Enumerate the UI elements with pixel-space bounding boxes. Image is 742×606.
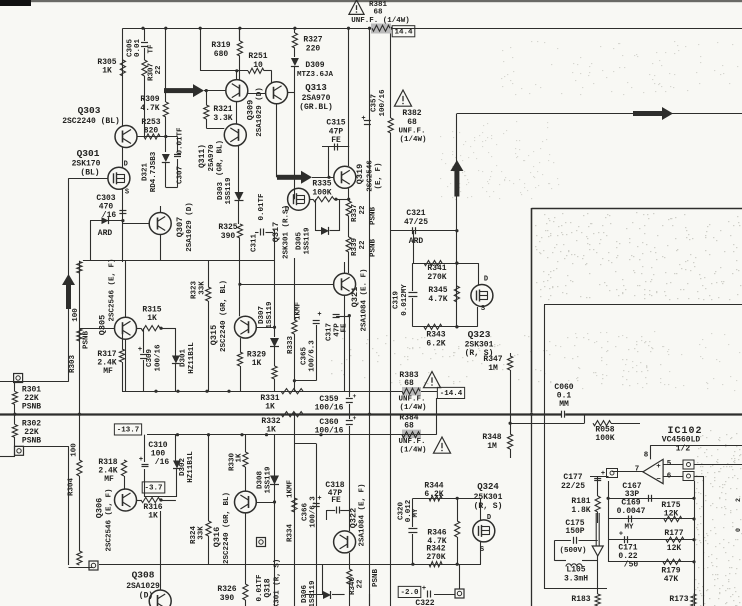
- svg-text:Q323: Q323: [468, 329, 491, 340]
- svg-text:FE: FE: [331, 136, 341, 145]
- svg-text:8: 8: [644, 452, 649, 460]
- svg-text:1K: 1K: [265, 403, 275, 412]
- svg-text:PSNB: PSNB: [370, 207, 378, 226]
- svg-text:C319: C319: [393, 291, 401, 310]
- svg-text:6: 6: [667, 473, 672, 481]
- svg-text:0.012MY: 0.012MY: [401, 284, 409, 316]
- svg-text:33K: 33K: [199, 281, 207, 295]
- svg-text:(1/4W): (1/4W): [399, 447, 426, 455]
- svg-text:R327: R327: [303, 36, 322, 45]
- svg-text:2SA1084 (E. F): 2SA1084 (E. F): [361, 268, 369, 331]
- svg-text:S: S: [480, 546, 484, 554]
- svg-text:C321: C321: [406, 209, 425, 218]
- svg-text:UNF.F.: UNF.F.: [398, 438, 425, 446]
- svg-text:/16: /16: [155, 458, 170, 467]
- svg-text:6.2K: 6.2K: [426, 340, 445, 349]
- svg-text:MY: MY: [624, 524, 634, 532]
- svg-text:2SC2546 (E, F): 2SC2546 (E, F): [106, 488, 114, 551]
- svg-text:MF: MF: [104, 475, 114, 484]
- svg-text:MF: MF: [103, 367, 113, 376]
- svg-text:Q301: Q301: [77, 148, 100, 159]
- svg-text:680: 680: [214, 50, 229, 59]
- svg-text:C317: C317: [326, 323, 334, 341]
- svg-text:(1/4W): (1/4W): [399, 136, 426, 144]
- svg-text:100/16: 100/16: [315, 427, 344, 436]
- svg-text:1M: 1M: [487, 442, 497, 451]
- svg-text:68: 68: [404, 422, 414, 431]
- svg-text:270K: 270K: [426, 553, 445, 562]
- svg-text:1.8K: 1.8K: [571, 506, 590, 515]
- svg-text:FE: FE: [341, 323, 349, 333]
- svg-text:100: 100: [71, 443, 79, 457]
- svg-text:R341: R341: [427, 264, 446, 273]
- svg-text:R335: R335: [312, 180, 331, 189]
- svg-text:C366: C366: [302, 503, 310, 522]
- svg-text:220: 220: [306, 45, 321, 54]
- svg-text:2SK301 (R, S): 2SK301 (R, S): [274, 559, 282, 606]
- svg-text:Q321: Q321: [350, 287, 360, 307]
- svg-text:2SA970: 2SA970: [302, 94, 331, 103]
- svg-text:2SK170: 2SK170: [72, 160, 101, 169]
- svg-text:+: +: [139, 456, 143, 464]
- svg-text:Q318: Q318: [264, 578, 273, 597]
- svg-text:R321: R321: [213, 105, 232, 114]
- svg-text:100: 100: [72, 308, 80, 322]
- svg-text:100K: 100K: [312, 189, 331, 198]
- svg-text:R348: R348: [482, 433, 501, 442]
- svg-text:D: D: [285, 206, 289, 214]
- svg-text:2SC2546: 2SC2546: [367, 160, 375, 192]
- svg-text:UNF.F. (1/4W): UNF.F. (1/4W): [351, 17, 410, 25]
- svg-text:1K: 1K: [102, 67, 112, 76]
- svg-text:MTZ3.6JA: MTZ3.6JA: [297, 71, 334, 79]
- svg-text:-3.7: -3.7: [144, 485, 162, 493]
- svg-text:D306: D306: [301, 585, 309, 604]
- svg-text:(D): (D): [139, 592, 153, 601]
- svg-text:68: 68: [404, 379, 414, 388]
- svg-text:+: +: [353, 393, 357, 400]
- svg-text:(R, S): (R, S): [474, 502, 503, 511]
- svg-text:4.7K: 4.7K: [140, 104, 159, 113]
- svg-text:FE: FE: [331, 496, 341, 505]
- svg-text:C357: C357: [371, 94, 379, 112]
- svg-text:0.01TF: 0.01TF: [258, 193, 266, 221]
- svg-text:S: S: [125, 189, 129, 197]
- svg-text:Q308: Q308: [132, 570, 155, 581]
- svg-text:12K: 12K: [667, 544, 682, 553]
- svg-text:(E, F): (E, F): [375, 162, 383, 189]
- svg-text:D: D: [124, 161, 128, 169]
- svg-text:R345: R345: [428, 286, 447, 295]
- svg-text:/50: /50: [624, 561, 639, 570]
- svg-text:Q309: Q309: [246, 100, 256, 120]
- svg-text:PSNB: PSNB: [22, 403, 41, 412]
- svg-text:2SC2240 (GR, BL): 2SC2240 (GR, BL): [223, 492, 231, 564]
- svg-text:Q317: Q317: [271, 222, 281, 242]
- svg-text:RD4.7JSB3: RD4.7JSB3: [150, 151, 158, 192]
- svg-text:Q306: Q306: [95, 498, 105, 518]
- svg-text:MY: MY: [412, 508, 420, 518]
- svg-text:R183: R183: [571, 595, 590, 604]
- svg-text:D308: D308: [257, 471, 265, 490]
- svg-text:1M: 1M: [488, 364, 498, 373]
- svg-text:R339: R339: [351, 238, 359, 257]
- svg-text:68: 68: [407, 118, 417, 127]
- svg-text:22: 22: [359, 240, 367, 250]
- svg-text:2SC2240 (GR, BL): 2SC2240 (GR, BL): [220, 280, 228, 352]
- svg-text:R323: R323: [191, 281, 199, 300]
- svg-text:D309: D309: [305, 61, 324, 70]
- svg-text:Q313: Q313: [305, 83, 327, 93]
- svg-text:2SA1029 (D): 2SA1029 (D): [186, 202, 194, 252]
- svg-text:L105: L105: [566, 566, 585, 575]
- svg-text:100K: 100K: [595, 434, 614, 443]
- svg-text:C315: C315: [326, 119, 345, 128]
- svg-text:Q316: Q316: [212, 527, 222, 547]
- svg-text:R326: R326: [217, 585, 236, 594]
- svg-text:UNF.F.: UNF.F.: [398, 396, 425, 404]
- svg-text:HZ11B1L: HZ11B1L: [188, 342, 196, 374]
- svg-text:6.2K: 6.2K: [424, 490, 443, 499]
- svg-text:(BL): (BL): [80, 169, 99, 178]
- svg-text:-13.7: -13.7: [117, 427, 140, 435]
- svg-text:Q307: Q307: [175, 217, 185, 237]
- svg-text:1/2: 1/2: [676, 445, 691, 454]
- svg-text:2SC2546 (E, F): 2SC2546 (E, F): [109, 258, 117, 321]
- svg-text:Q315: Q315: [209, 325, 219, 345]
- svg-text:R325: R325: [218, 223, 237, 232]
- svg-text:22: 22: [359, 205, 367, 215]
- svg-text:HZ11B1L: HZ11B1L: [187, 451, 195, 483]
- svg-text:/16: /16: [102, 211, 117, 220]
- svg-text:(1/4W): (1/4W): [399, 404, 426, 412]
- svg-text:-14.4: -14.4: [440, 390, 463, 398]
- svg-text:2SA1029 (D): 2SA1029 (D): [256, 87, 264, 137]
- svg-text:R173: R173: [669, 595, 688, 604]
- svg-text:1SS119: 1SS119: [266, 301, 274, 329]
- svg-text:100/6.3: 100/6.3: [309, 340, 317, 372]
- svg-text:4.7K: 4.7K: [428, 295, 447, 304]
- svg-text:R334: R334: [287, 524, 295, 543]
- svg-text:1K: 1K: [252, 359, 262, 368]
- svg-text:PSNB: PSNB: [370, 239, 378, 258]
- svg-text:R333: R333: [287, 336, 295, 355]
- svg-text:R319: R319: [211, 41, 230, 50]
- svg-text:D303: D303: [217, 182, 225, 201]
- svg-text:22/25: 22/25: [561, 482, 585, 491]
- svg-text:+: +: [317, 495, 321, 503]
- svg-text:1SS119: 1SS119: [304, 227, 312, 255]
- svg-text:Q319: Q319: [355, 164, 365, 184]
- svg-text:UNF.F.: UNF.F.: [398, 128, 425, 136]
- svg-text:1K: 1K: [147, 314, 157, 323]
- svg-text:100/16: 100/16: [379, 89, 387, 117]
- svg-text:+: +: [317, 311, 321, 319]
- svg-text:R343: R343: [426, 331, 445, 340]
- svg-text:−: −: [656, 476, 661, 484]
- svg-text:R177: R177: [664, 529, 683, 538]
- svg-text:2SA1084 (E, F): 2SA1084 (E, F): [359, 483, 367, 546]
- svg-text:1KMF: 1KMF: [287, 480, 295, 499]
- svg-text:(GR, BL): (GR, BL): [217, 140, 225, 176]
- svg-text:ARD: ARD: [409, 237, 424, 246]
- svg-text:7: 7: [635, 466, 640, 474]
- svg-text:3.3mH: 3.3mH: [564, 575, 588, 584]
- svg-text:R304: R304: [68, 478, 76, 497]
- svg-text:390: 390: [220, 594, 235, 603]
- svg-text:1SS119: 1SS119: [265, 466, 273, 494]
- svg-text:1SS119: 1SS119: [225, 177, 233, 205]
- svg-text:47/25: 47/25: [404, 218, 428, 227]
- svg-text:0.0047: 0.0047: [617, 507, 646, 516]
- svg-text:PSNB: PSNB: [22, 437, 41, 446]
- svg-text:3.3K: 3.3K: [213, 114, 232, 123]
- svg-text:820: 820: [144, 127, 159, 136]
- svg-text:Q305: Q305: [98, 315, 108, 335]
- svg-text:+: +: [619, 531, 623, 539]
- svg-text:(GR.BL): (GR.BL): [299, 103, 333, 112]
- svg-text:D321: D321: [142, 163, 150, 182]
- svg-text:0.01: 0.01: [134, 39, 142, 58]
- svg-text:Q322: Q322: [349, 508, 359, 528]
- svg-text:68: 68: [373, 9, 383, 17]
- svg-text:PSNB: PSNB: [372, 569, 380, 588]
- svg-text:1SS119: 1SS119: [309, 580, 317, 606]
- svg-text:1K: 1K: [148, 512, 158, 521]
- svg-text:100/16: 100/16: [155, 344, 163, 372]
- svg-text:C311: C311: [251, 234, 259, 253]
- svg-text:R347: R347: [483, 355, 502, 364]
- svg-text:R251: R251: [248, 52, 267, 61]
- svg-text:Q303: Q303: [78, 105, 101, 116]
- svg-text:D: D: [487, 514, 491, 522]
- svg-text:+: +: [656, 463, 661, 471]
- svg-text:TF: TF: [148, 44, 156, 54]
- svg-text:Q311): Q311): [198, 144, 207, 168]
- svg-text:270K: 270K: [427, 273, 446, 282]
- svg-text:10: 10: [253, 61, 263, 70]
- svg-text:-2.0: -2.0: [400, 589, 419, 597]
- svg-text:14.4: 14.4: [394, 28, 413, 36]
- svg-text:2SA1029: 2SA1029: [126, 582, 160, 591]
- svg-text:47K: 47K: [664, 575, 679, 584]
- svg-text:+: +: [138, 346, 142, 354]
- svg-text:100/16: 100/16: [315, 404, 344, 413]
- svg-text:+: +: [422, 585, 426, 593]
- svg-text:D: D: [484, 276, 488, 284]
- svg-text:S: S: [481, 305, 485, 313]
- svg-text:R181: R181: [571, 497, 590, 506]
- svg-text:D305: D305: [296, 232, 304, 251]
- svg-text:R303: R303: [69, 355, 77, 374]
- svg-text:25A970: 25A970: [208, 144, 216, 172]
- svg-text:1KMF: 1KMF: [295, 302, 303, 321]
- svg-text:1K: 1K: [266, 426, 276, 435]
- svg-text:R337: R337: [351, 204, 359, 222]
- svg-text:+: +: [353, 415, 357, 422]
- svg-text:R309: R309: [140, 95, 159, 104]
- svg-text:C322: C322: [415, 599, 434, 606]
- svg-text:ARD: ARD: [98, 229, 113, 238]
- svg-text:5: 5: [667, 460, 672, 468]
- svg-text:D302: D302: [179, 458, 187, 477]
- svg-text:(500V): (500V): [559, 547, 586, 555]
- svg-text:0: 0: [735, 528, 742, 532]
- svg-text:D307: D307: [258, 306, 266, 324]
- svg-text:33K: 33K: [198, 526, 206, 540]
- svg-text:0.01TF: 0.01TF: [177, 127, 185, 155]
- svg-text:25K301: 25K301: [474, 493, 503, 502]
- svg-text:C309: C309: [146, 349, 154, 368]
- svg-text:C177: C177: [563, 473, 582, 482]
- svg-text:12K: 12K: [664, 510, 679, 519]
- svg-text:2: 2: [735, 498, 742, 502]
- svg-text:22: 22: [155, 65, 163, 75]
- svg-text:R382: R382: [402, 109, 421, 118]
- svg-text:22: 22: [357, 579, 365, 589]
- svg-text:1K: 1K: [236, 453, 244, 463]
- svg-text:VC4560LD: VC4560LD: [662, 436, 701, 445]
- svg-text:100/6.3: 100/6.3: [310, 496, 318, 528]
- svg-text:390: 390: [221, 232, 236, 241]
- svg-text:+: +: [361, 115, 365, 123]
- svg-text:PSNB: PSNB: [83, 331, 91, 350]
- svg-text:C307: C307: [177, 166, 185, 184]
- svg-text:C365: C365: [301, 347, 309, 366]
- svg-text:150P: 150P: [565, 527, 584, 536]
- svg-text:Q324: Q324: [477, 482, 499, 492]
- svg-text:MM: MM: [559, 400, 569, 409]
- svg-text:2SC2240 (BL): 2SC2240 (BL): [62, 117, 120, 126]
- svg-text:D301: D301: [180, 349, 188, 368]
